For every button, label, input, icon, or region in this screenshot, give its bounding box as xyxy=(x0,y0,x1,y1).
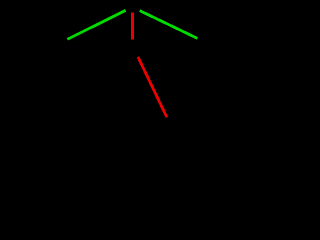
red diagonal line xyxy=(138,57,167,118)
green line left (rising to apex) xyxy=(68,10,126,39)
red vertical bar below apex xyxy=(131,13,134,40)
green line right (falling from apex) xyxy=(140,11,198,39)
